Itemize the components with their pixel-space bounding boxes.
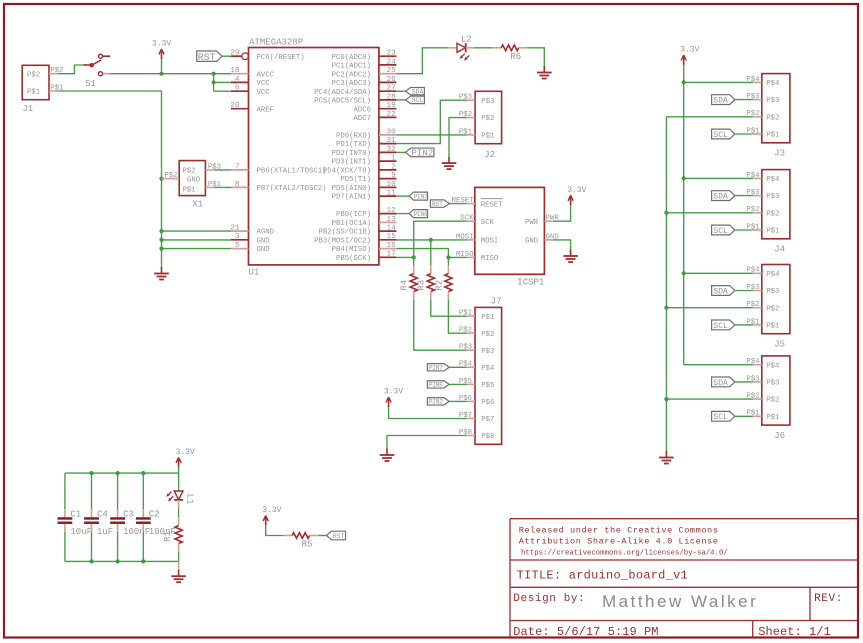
- pin P$3 J4: [746, 189, 761, 197]
- svg-text:18: 18: [230, 67, 240, 75]
- svg-text:R1: R1: [163, 531, 173, 542]
- wire stub LED anode: [448, 47, 457, 49]
- svg-text:VCC: VCC: [257, 89, 271, 97]
- pin 23 PC0(ADC0): [332, 50, 397, 62]
- wire 3.3V right rail: [683, 65, 685, 365]
- svg-text:MOSI: MOSI: [481, 238, 499, 246]
- node MOSI junction R3: [429, 238, 433, 242]
- 3.3V supply at R5: [262, 506, 281, 526]
- wire R3 bottom to J7 P$1: [431, 292, 467, 317]
- svg-text:ADC7: ADC7: [353, 115, 371, 123]
- pin GND X1: [162, 172, 180, 180]
- svg-text:RESET: RESET: [481, 201, 504, 209]
- connector J2: [475, 91, 502, 160]
- svg-text:13: 13: [386, 216, 396, 224]
- wire 3.3V rail to J5 P$4: [684, 272, 753, 274]
- node MISO junction R2: [446, 255, 450, 259]
- svg-text:P$2: P$2: [182, 167, 195, 175]
- node X1 GND junction: [159, 177, 163, 181]
- wire SDA flag to J5 P$3: [735, 290, 753, 292]
- wire R2 bottom to J7 P$2: [448, 292, 466, 334]
- svg-text:SDA: SDA: [412, 89, 424, 96]
- svg-text:Sheet: 1/1: Sheet: 1/1: [758, 625, 831, 639]
- wire 3.3V rail to J4 P$4: [684, 177, 753, 179]
- svg-text:PD4(XCK/T0): PD4(XCK/T0): [323, 168, 371, 176]
- svg-text:PB4(MISO): PB4(MISO): [332, 246, 371, 254]
- svg-text:MISO: MISO: [481, 255, 499, 263]
- svg-text:22: 22: [386, 111, 396, 119]
- pin P$4 J5: [746, 267, 761, 275]
- pin 18 AVCC: [230, 67, 274, 79]
- svg-text:10: 10: [386, 181, 396, 189]
- svg-text:P$2: P$2: [766, 305, 779, 313]
- net flag PIN8 at J7 P$5: [427, 381, 449, 389]
- pin 17 PB5(SCK): [336, 251, 396, 263]
- svg-text:SDA: SDA: [713, 192, 728, 201]
- pin 29 PC6(/RESET): [230, 50, 304, 62]
- pin MISO ICSP1: [456, 251, 475, 259]
- pin 28 PC5(ADC5/SCL): [314, 93, 396, 105]
- pin 16 PB4(MISO): [332, 242, 397, 254]
- svg-text:P$1: P$1: [481, 314, 495, 322]
- svg-text:100nF: 100nF: [123, 527, 150, 537]
- svg-text:3.3V: 3.3V: [176, 448, 195, 457]
- pin 15 PB3(MOSI/OC2): [314, 233, 396, 245]
- node GND junction pin5: [159, 247, 163, 251]
- resistor R3: [427, 274, 434, 292]
- net flag PIN8 at pin 12: [409, 210, 428, 218]
- svg-text:P$3: P$3: [766, 380, 779, 388]
- svg-text:PIN7: PIN7: [429, 365, 443, 372]
- svg-text:25: 25: [386, 67, 396, 75]
- pin P$2 J5: [746, 301, 761, 309]
- pin P$6 J7: [459, 395, 475, 403]
- svg-text:P$5: P$5: [481, 382, 494, 390]
- node AVCC junction 3.3V: [159, 72, 163, 76]
- wire to VCC pin 6: [214, 90, 231, 92]
- pin P$2 J6: [746, 393, 761, 401]
- LED L2: [457, 34, 472, 60]
- pin P$1 J2: [459, 128, 475, 136]
- wire R1 to bottom rail: [178, 544, 180, 562]
- svg-text:C1: C1: [70, 510, 81, 520]
- svg-text:P$3: P$3: [766, 97, 779, 105]
- pin 20 AREF: [230, 102, 274, 114]
- connector J3: [762, 74, 790, 159]
- svg-text:PIN8: PIN8: [414, 211, 428, 218]
- resistor R2: [445, 274, 452, 292]
- svg-text:J1: J1: [22, 104, 33, 114]
- svg-text:SCL: SCL: [412, 97, 424, 104]
- IC U1 ATMEGA328P: [249, 37, 379, 277]
- wire PWR to 3.3V: [553, 205, 571, 221]
- svg-text:Released under the Creative Co: Released under the Creative Commons: [519, 525, 719, 535]
- svg-text:P$4: P$4: [766, 176, 780, 184]
- svg-text:PD0(RXD): PD0(RXD): [336, 133, 371, 141]
- pin 30 PD0(RXD): [336, 128, 396, 140]
- wire 3.3V to L1: [178, 467, 180, 490]
- resistor R4: [410, 274, 417, 292]
- svg-text:SDA: SDA: [713, 287, 728, 296]
- svg-text:P$2: P$2: [481, 331, 494, 339]
- pin P$7 J7: [459, 412, 475, 420]
- pin P$3 X1: [205, 163, 221, 171]
- ground at R6: [537, 66, 552, 79]
- connector J5: [762, 265, 790, 350]
- svg-text:ICSP1: ICSP1: [517, 278, 544, 288]
- svg-text:P$8: P$8: [481, 433, 494, 441]
- pin P$3 J6: [746, 375, 761, 383]
- node GND rail junction J5: [664, 306, 668, 310]
- svg-text:J4: J4: [774, 245, 785, 255]
- pin P$1 J7: [459, 310, 475, 318]
- pin P$2 J7: [459, 327, 475, 335]
- svg-text:RST: RST: [431, 201, 443, 208]
- wire stub R6 right: [519, 47, 527, 49]
- svg-text:PB5(SCK): PB5(SCK): [336, 255, 371, 263]
- pin 8 PB7(XTAL2/TOSC2): [231, 181, 327, 193]
- node VCC pin4 junction: [212, 80, 216, 84]
- svg-text:P$2: P$2: [459, 327, 472, 335]
- node GND junction pin3: [159, 238, 163, 242]
- svg-text:SCK: SCK: [481, 219, 495, 227]
- svg-text:J6: J6: [774, 431, 785, 441]
- node 3.3V rail junction J5: [682, 271, 686, 275]
- wire to AGND pin 21: [162, 230, 232, 232]
- svg-text:3.3V: 3.3V: [680, 46, 699, 55]
- pin P$4 J7: [459, 361, 475, 369]
- svg-text:SCL: SCL: [713, 227, 728, 236]
- svg-text:GND: GND: [257, 246, 271, 254]
- node SCK junction R4: [412, 255, 416, 259]
- resistor R6: [501, 45, 519, 51]
- resistor R1: [175, 526, 182, 544]
- pin 5 GND: [231, 242, 270, 254]
- pin P$1 J4: [746, 223, 761, 231]
- svg-text:P$3: P$3: [766, 288, 779, 296]
- pin P$4 J3: [746, 76, 761, 84]
- svg-text:PWR: PWR: [525, 219, 539, 227]
- 3.3V supply right rail: [680, 46, 699, 66]
- svg-text:29: 29: [230, 50, 240, 58]
- svg-text:Attribution Share-Alike 4.0 Li: Attribution Share-Alike 4.0 License: [519, 537, 719, 547]
- svg-text:P$4: P$4: [766, 362, 780, 370]
- svg-text:SDA: SDA: [713, 96, 728, 105]
- pin P$3 J3: [746, 93, 761, 101]
- svg-text:AGND: AGND: [257, 229, 275, 237]
- svg-text:R5: R5: [302, 539, 313, 549]
- wire J7 P$8 to ground: [387, 436, 467, 449]
- connector ICSP1: [475, 187, 545, 287]
- svg-text:PIN2: PIN2: [429, 399, 443, 406]
- svg-text:PD2(INT0): PD2(INT0): [332, 150, 371, 158]
- net flag SCL at J4 P$1: [712, 225, 735, 236]
- capacitor C4: [84, 473, 113, 561]
- svg-text:GND: GND: [257, 237, 271, 245]
- svg-text:P$2: P$2: [766, 210, 779, 218]
- wire RST flag to ICSP1 RESET: [449, 203, 466, 205]
- net flag SDA at J6 P$3: [712, 377, 735, 388]
- svg-text:17: 17: [386, 251, 396, 259]
- svg-text:C3: C3: [123, 510, 134, 520]
- pin P$1 J5: [746, 318, 761, 326]
- pin 6 VCC: [231, 85, 270, 97]
- wire SDA flag to J6 P$3: [735, 381, 753, 383]
- svg-text:P$4: P$4: [766, 80, 780, 88]
- svg-text:TITLE: arduino_board_v1: TITLE: arduino_board_v1: [517, 568, 688, 582]
- svg-text:19: 19: [386, 102, 396, 110]
- svg-text:20: 20: [230, 102, 240, 110]
- svg-text:AREF: AREF: [257, 106, 275, 114]
- pin P$8 J7: [459, 429, 475, 437]
- svg-text:24: 24: [386, 58, 396, 66]
- node cap bottom junction: [116, 559, 120, 563]
- wire R4 bottom to J7 P$3: [414, 292, 467, 351]
- connector J1: [22, 65, 49, 114]
- wire pin 12 to PIN8 flag: [396, 213, 409, 215]
- 3.3V supply near S1: [152, 40, 171, 60]
- wire R5 to RST flag: [318, 535, 326, 537]
- svg-text:ADC6: ADC6: [353, 106, 371, 114]
- wire pin 11 to PIN7 flag: [396, 195, 409, 197]
- wire PIN8 flag to J7 P$5: [449, 383, 467, 385]
- wire 3.3V to J7 P$7: [389, 407, 467, 419]
- svg-text:16: 16: [386, 242, 396, 250]
- svg-text:S1: S1: [85, 79, 96, 89]
- net flag SCL at J3 P$1: [712, 129, 735, 140]
- svg-text:P$2: P$2: [27, 71, 40, 79]
- svg-text:P$1: P$1: [766, 132, 780, 140]
- net flag PIN2 at pin 32: [405, 148, 434, 159]
- pin PWR ICSP1: [544, 215, 559, 223]
- svg-text:PIN7: PIN7: [414, 193, 428, 200]
- svg-text:R2: R2: [434, 280, 444, 291]
- svg-text:SDA: SDA: [713, 379, 728, 388]
- wire R6 to ground: [527, 48, 544, 66]
- net flag SCL at J5 P$1: [712, 320, 735, 331]
- svg-text:PC3(ADC3): PC3(ADC3): [332, 80, 371, 88]
- svg-text:PD6(AIN0): PD6(AIN0): [332, 185, 371, 193]
- pin 24 PC1(ADC1): [332, 58, 397, 70]
- svg-text:15: 15: [386, 233, 396, 241]
- svg-text:PC1(ADC1): PC1(ADC1): [332, 63, 371, 71]
- node cap top junction: [89, 471, 93, 475]
- wire stub S1 pivot: [83, 64, 89, 66]
- ground at J7: [380, 449, 395, 462]
- svg-text:PC2(ADC2): PC2(ADC2): [332, 71, 371, 79]
- svg-text:PB2(SS/OC1B): PB2(SS/OC1B): [318, 229, 371, 237]
- svg-text:9: 9: [391, 172, 396, 180]
- wire SCL flag to J4 P$1: [735, 229, 753, 231]
- svg-text:PC0(ADC0): PC0(ADC0): [332, 54, 371, 62]
- connector J7: [475, 297, 502, 445]
- svg-text:PB3(MOSI/OC2): PB3(MOSI/OC2): [314, 237, 371, 245]
- wire GND ICSP1 to ground: [553, 240, 571, 250]
- svg-text:C4: C4: [97, 510, 108, 520]
- pin MOSI ICSP1: [456, 233, 475, 241]
- net flag PIN2 at J7 P$6: [427, 398, 449, 406]
- svg-text:P$2: P$2: [766, 114, 779, 122]
- net flag SDA at pin 27: [406, 88, 425, 96]
- svg-text:P$4: P$4: [481, 365, 495, 373]
- pin 31 PD1(TXD): [336, 137, 396, 149]
- svg-text:P$7: P$7: [481, 416, 494, 424]
- pin 4 VCC: [231, 76, 270, 88]
- pin P$3 J7: [459, 344, 475, 352]
- net flag RST at R5: [327, 531, 346, 540]
- pin P$5 J7: [459, 378, 475, 386]
- pin 1 PD3(INT1): [332, 155, 397, 167]
- pin P$3 J2: [459, 94, 475, 102]
- wire 3.3V to AVCC net: [161, 59, 163, 74]
- switch S1: [85, 54, 110, 89]
- svg-text:P$4: P$4: [766, 271, 780, 279]
- pin 13 PB1(OC1A): [332, 216, 397, 228]
- svg-text:U1: U1: [249, 267, 260, 277]
- wire X1 to pin 7: [214, 169, 231, 171]
- pin P$1 J6: [746, 410, 761, 418]
- svg-text:P$2: P$2: [481, 115, 494, 123]
- wire J2 P$2 to ground: [449, 118, 467, 157]
- svg-text:L2: L2: [461, 34, 472, 44]
- svg-text:4: 4: [235, 76, 240, 84]
- title block: [510, 519, 857, 637]
- svg-text:1: 1: [391, 155, 396, 163]
- svg-text:30: 30: [386, 128, 396, 136]
- svg-text:P$1: P$1: [766, 323, 780, 331]
- svg-text:26: 26: [386, 76, 396, 84]
- wire PIN2 flag to J7 P$6: [449, 400, 467, 402]
- svg-text:SCL: SCL: [713, 413, 728, 422]
- pin 7 PB6(XTAL1/TOSC1): [231, 163, 327, 175]
- wire J1 P$2 to S1: [58, 65, 84, 74]
- svg-text:23: 23: [386, 50, 396, 58]
- node AGND junction: [159, 229, 163, 233]
- pin GND ICSP1: [544, 233, 559, 241]
- svg-text:P$3: P$3: [459, 344, 472, 352]
- wire SDA flag to J4 P$3: [735, 195, 753, 197]
- wire 3.3V rail to J6 P$4: [684, 364, 753, 366]
- wire R2 top: [447, 257, 449, 273]
- svg-text:P$1: P$1: [182, 186, 196, 194]
- capacitor C2: [136, 473, 176, 561]
- node GND rail junction J6: [664, 397, 668, 401]
- pin 12 PB0(ICP): [336, 207, 396, 219]
- title block license text: [519, 525, 728, 557]
- svg-text:7: 7: [235, 163, 240, 171]
- wire 3.3V rail to J3 P$4: [684, 81, 753, 83]
- svg-text:C2: C2: [149, 510, 160, 520]
- wire GND rail to J6 P$2: [666, 398, 753, 400]
- LED L1: [166, 491, 194, 504]
- capacitor C1: [58, 473, 93, 561]
- wire stub R5 left: [284, 535, 292, 537]
- svg-text:R3: R3: [417, 280, 427, 291]
- svg-text:J5: J5: [774, 339, 785, 349]
- wire SCL flag to J5 P$1: [735, 324, 753, 326]
- svg-text:6: 6: [235, 85, 240, 93]
- 3.3V supply at J7: [384, 388, 403, 408]
- svg-text:27: 27: [386, 85, 396, 93]
- svg-text:3.3V: 3.3V: [384, 388, 403, 397]
- svg-text:PD5(T1): PD5(T1): [340, 176, 371, 184]
- svg-text:PC6(/RESET): PC6(/RESET): [257, 54, 305, 62]
- capacitor C3: [110, 473, 150, 561]
- svg-text:3.3V: 3.3V: [567, 186, 586, 195]
- pin P$3 J5: [746, 284, 761, 292]
- svg-text:J7: J7: [491, 297, 502, 307]
- svg-text:5: 5: [235, 242, 240, 250]
- node GND rail junction J4: [664, 211, 668, 215]
- svg-text:14: 14: [386, 225, 396, 233]
- svg-text:X1: X1: [192, 199, 203, 209]
- svg-text:Design by:: Design by:: [513, 593, 585, 605]
- svg-text:PB1(OC1A): PB1(OC1A): [332, 220, 371, 228]
- wire SCL flag to J6 P$1: [735, 415, 753, 417]
- wire pin 25 to LED L2: [396, 48, 448, 74]
- wire 3.3V to R5: [266, 526, 284, 536]
- svg-text:R4: R4: [400, 280, 410, 291]
- svg-text:32: 32: [386, 146, 396, 154]
- pin 21 AGND: [230, 225, 274, 237]
- svg-text:PD1(TXD): PD1(TXD): [336, 141, 371, 149]
- pin P$1 X1: [205, 181, 221, 189]
- wire to VCC pin 4: [214, 81, 231, 83]
- svg-text:P$1: P$1: [459, 310, 473, 318]
- 3.3V supply at L1: [176, 448, 195, 468]
- svg-text:PIN2: PIN2: [412, 149, 434, 159]
- node cap bottom junction: [141, 559, 145, 563]
- wire GND right rail: [665, 117, 667, 451]
- wire capacitor bottom rail: [65, 560, 179, 562]
- svg-text:PC4(ADC4/SDA): PC4(ADC4/SDA): [314, 89, 371, 97]
- net flag PIN7 at pin 11: [409, 192, 428, 200]
- crystal X1: [179, 161, 205, 210]
- pin P$2 J1: [49, 67, 63, 75]
- svg-text:SCL: SCL: [713, 131, 728, 140]
- connector J4: [762, 170, 790, 255]
- connector J6: [762, 356, 790, 441]
- pin 27 PC4(ADC4/SDA): [314, 85, 396, 97]
- svg-text:P$1: P$1: [27, 89, 41, 97]
- net flag SDA at J3 P$3: [712, 95, 735, 106]
- svg-text:3: 3: [235, 233, 240, 241]
- pin P$2 J2: [459, 111, 475, 119]
- svg-text:PC5(ADC5/SCL): PC5(ADC5/SCL): [314, 98, 371, 106]
- svg-text:12: 12: [386, 207, 396, 215]
- pin SCK ICSP1: [460, 215, 474, 223]
- wire pin 31 to J2 P$3: [396, 100, 466, 143]
- svg-text:REV:: REV:: [814, 593, 843, 605]
- wire SCL flag to J3 P$1: [735, 133, 753, 135]
- svg-text:L1: L1: [184, 494, 194, 505]
- wire SDA flag to J3 P$3: [735, 99, 753, 101]
- svg-text:ATMEGA328P: ATMEGA328P: [249, 37, 303, 47]
- wire R4 top: [413, 257, 415, 265]
- node 3.3V rail junction J4: [682, 176, 686, 180]
- svg-text:P$1: P$1: [766, 228, 780, 236]
- pin RESET ICSP1: [452, 197, 475, 205]
- wire PIN7 flag to J7 P$4: [449, 366, 467, 368]
- wire MOSI net: [396, 239, 466, 241]
- wire MISO net: [396, 249, 466, 258]
- svg-text:3.3V: 3.3V: [152, 40, 171, 49]
- svg-text:AVCC: AVCC: [257, 71, 275, 79]
- svg-text:3.3V: 3.3V: [262, 506, 281, 515]
- wire RST flag to pin 29: [222, 55, 231, 57]
- pin 19 ADC6: [353, 102, 396, 114]
- pin P$1 J3: [746, 127, 761, 135]
